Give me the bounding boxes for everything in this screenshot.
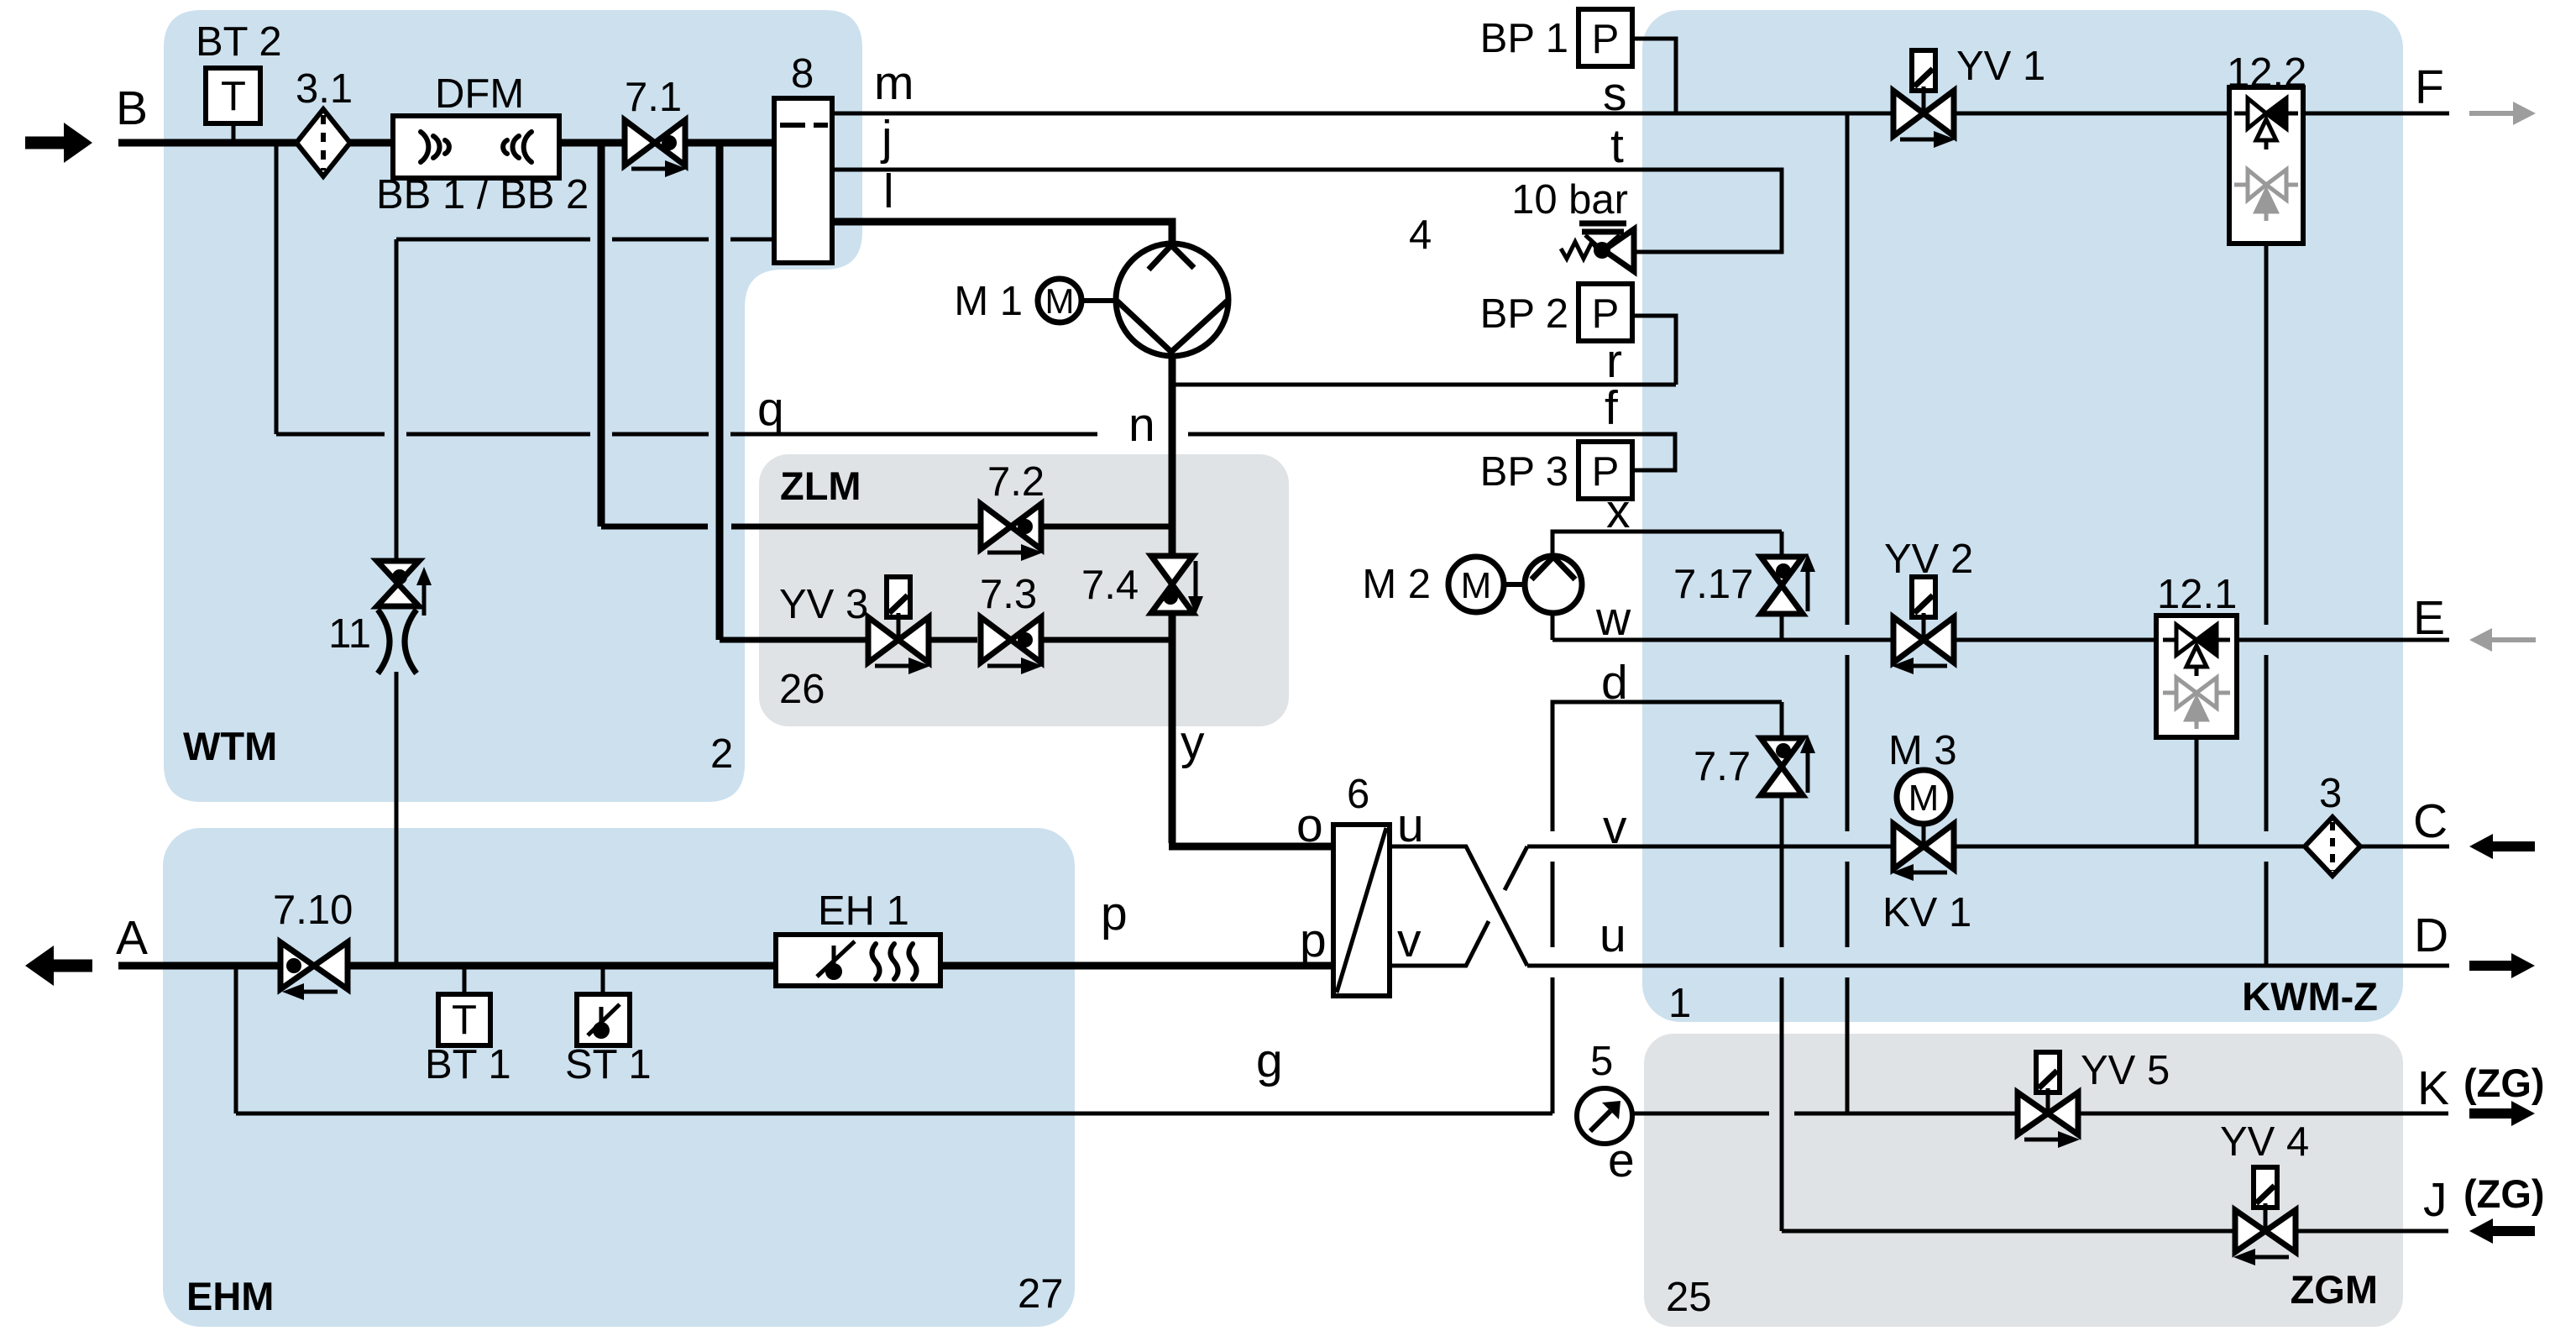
wire A line (thick)	[118, 962, 280, 970]
svg-text:26: 26	[779, 667, 825, 712]
svg-text:B: B	[116, 81, 148, 135]
svg-text:BT 1: BT 1	[425, 1042, 511, 1087]
svg-text:3.1: 3.1	[296, 66, 353, 112]
port K arrow	[2469, 1101, 2535, 1126]
svg-text:C: C	[2413, 794, 2448, 848]
svg-text:7.4: 7.4	[1081, 563, 1139, 608]
valve YV 1	[1893, 86, 1956, 148]
svg-text:v: v	[1397, 914, 1422, 967]
svg-text:T: T	[221, 74, 246, 119]
wire g line	[236, 1112, 1552, 1116]
flow indicator 5	[1577, 1088, 1632, 1144]
svg-text:(ZG): (ZG)	[2463, 1171, 2545, 1216]
svg-text:q: q	[757, 382, 784, 436]
valve 7.1	[625, 120, 687, 177]
svg-text:j: j	[880, 111, 893, 165]
svg-text:e: e	[1608, 1134, 1635, 1187]
valve YV 5	[2018, 1088, 2080, 1148]
svg-text:4: 4	[1409, 212, 1432, 258]
svg-text:M 1: M 1	[954, 279, 1023, 324]
wire pump M1 down (thick)	[1169, 356, 1176, 556]
wire 7.2 line (thick)	[601, 524, 708, 530]
motor M of M1	[1038, 279, 1116, 322]
wire 7.7 stem	[1780, 702, 1784, 738]
valve 7.10	[280, 942, 348, 1000]
wire 12.2 connector down	[2264, 244, 2269, 625]
valve 7.7	[1761, 735, 1815, 795]
svg-text:12.1: 12.1	[2157, 572, 2237, 617]
svg-text:P: P	[1592, 17, 1620, 62]
wire valve 11 down	[395, 672, 399, 966]
svg-text:BP 1: BP 1	[1480, 16, 1568, 61]
svg-text:D: D	[2414, 909, 2448, 962]
module region WTM (blue)	[164, 10, 862, 802]
svg-text:M: M	[1461, 565, 1492, 606]
wire B main line	[118, 139, 774, 147]
svg-text:25: 25	[1666, 1275, 1712, 1320]
wire junction drop x=716 (thick)	[598, 143, 605, 527]
svg-text:BB 1 / BB 2: BB 1 / BB 2	[376, 172, 589, 217]
relief valve 4 (10 bar)	[1561, 223, 1634, 271]
solenoid pilot of YV 3	[887, 577, 910, 617]
valve YV 2	[1892, 613, 1954, 674]
flow meter DFM (ultrasonic)	[393, 116, 559, 178]
module region ZLM (grey)	[759, 454, 1289, 726]
wire q line	[276, 432, 385, 437]
svg-text:EHM: EHM	[186, 1274, 274, 1318]
pump M2 (circle)	[1525, 556, 1582, 613]
svg-text:n: n	[1128, 398, 1155, 452]
wire J line	[1782, 1229, 2236, 1234]
solenoid pilot of YV 1	[1912, 50, 1935, 91]
double check valve 12.1	[2156, 616, 2237, 737]
svg-text:M: M	[1908, 778, 1940, 819]
wire hx v crossover	[1390, 921, 1489, 966]
wire w line	[1551, 612, 1555, 640]
svg-text:ZLM: ZLM	[780, 464, 861, 508]
pressure sensor BP 3	[1579, 442, 1632, 499]
wire ST1 stub	[601, 966, 605, 994]
svg-text:(ZG): (ZG)	[2463, 1061, 2545, 1105]
svg-text:3: 3	[2319, 771, 2342, 816]
svg-text:7.7: 7.7	[1694, 744, 1751, 789]
svg-text:7.10: 7.10	[273, 888, 353, 933]
svg-text:WTM: WTM	[183, 724, 277, 768]
svg-text:1: 1	[1668, 981, 1691, 1026]
svg-text:d: d	[1601, 656, 1628, 710]
wire vertical x=472 to valve 11	[395, 239, 399, 561]
wire m line	[832, 112, 1894, 116]
svg-text:m: m	[874, 56, 914, 110]
svg-text:o: o	[1296, 799, 1323, 852]
valve 7.4	[1151, 556, 1203, 615]
svg-text:EH 1: EH 1	[818, 888, 909, 934]
svg-text:P: P	[1592, 291, 1620, 337]
filter 3.1 (diamond)	[296, 109, 350, 176]
svg-text:10 bar: 10 bar	[1511, 177, 1628, 223]
valve 7.3	[981, 617, 1043, 674]
valve YV 3	[868, 613, 930, 674]
temperature sensor BT 2	[206, 68, 260, 123]
svg-text:g: g	[1256, 1034, 1283, 1087]
svg-text:y: y	[1181, 715, 1205, 769]
svg-text:K: K	[2417, 1061, 2449, 1115]
wire YV3 line (thick)	[720, 637, 868, 643]
svg-text:p: p	[1101, 887, 1128, 940]
port C arrow	[2469, 834, 2535, 859]
port J arrow	[2469, 1218, 2535, 1244]
motorised valve KV 1	[1892, 824, 1954, 881]
wire BT1 stub	[463, 966, 467, 994]
port D arrow	[2469, 953, 2535, 978]
svg-text:7.3: 7.3	[980, 572, 1037, 617]
wire y line (thick)	[1169, 613, 1176, 843]
svg-text:F: F	[2415, 60, 2444, 114]
valve 11 arrow	[416, 567, 432, 616]
port B inlet arrow	[25, 123, 92, 163]
svg-text:5: 5	[1590, 1039, 1613, 1084]
air separator 8	[774, 98, 832, 263]
svg-text:YV 4: YV 4	[2220, 1119, 2309, 1165]
heat exchanger 6	[1333, 825, 1390, 996]
svg-text:YV 5: YV 5	[2081, 1048, 2170, 1093]
svg-text:KWM-Z: KWM-Z	[2242, 974, 2378, 1019]
svg-text:T: T	[452, 998, 477, 1043]
svg-text:u: u	[1397, 799, 1424, 852]
wire f line	[1188, 434, 1675, 470]
motor M of M3 valve	[1897, 770, 1950, 824]
wire BT2 stub	[232, 121, 236, 141]
svg-text:E: E	[2413, 591, 2445, 645]
wire u-D line	[1527, 964, 2449, 968]
svg-text:t: t	[1610, 119, 1624, 173]
svg-text:YV 1: YV 1	[1956, 44, 2045, 89]
svg-text:BP 3: BP 3	[1480, 449, 1568, 495]
safety thermostat ST 1	[577, 994, 630, 1045]
valve 11	[377, 561, 419, 606]
wire level line y=285	[396, 238, 590, 242]
wire junction drop x=857 (thick)	[716, 143, 724, 640]
wire EHM bypass drop	[234, 966, 238, 1113]
module region EHM (blue)	[163, 828, 1075, 1327]
svg-text:BT 2: BT 2	[196, 19, 282, 65]
svg-text:BP 2: BP 2	[1480, 291, 1568, 337]
valve 7.17	[1761, 553, 1815, 614]
wire s drop x=2200	[1846, 113, 1850, 625]
svg-text:r: r	[1606, 334, 1622, 388]
wire BP1 connector	[1632, 39, 1676, 112]
solenoid pilot of YV 5	[2036, 1052, 2060, 1092]
svg-text:M: M	[1045, 281, 1075, 321]
module region KWM-Z (blue)	[1642, 10, 2403, 1022]
svg-text:7.1: 7.1	[625, 75, 682, 120]
double check valve 12.2	[2229, 87, 2303, 244]
heater EH 1	[776, 935, 940, 986]
svg-text:12.2: 12.2	[2227, 50, 2306, 96]
wire 12.1 connector down	[2195, 737, 2199, 846]
svg-text:7.17: 7.17	[1673, 562, 1753, 607]
svg-text:8: 8	[791, 51, 814, 97]
port F arrow (grey)	[2469, 102, 2536, 125]
svg-text:DFM: DFM	[435, 71, 524, 117]
svg-text:w: w	[1595, 592, 1631, 646]
svg-text:27: 27	[1018, 1271, 1064, 1317]
svg-text:f: f	[1605, 381, 1618, 435]
solenoid pilot of YV 4	[2254, 1167, 2277, 1208]
solenoid pilot of YV 2	[1912, 577, 1935, 617]
svg-text:YV 2: YV 2	[1884, 537, 1973, 582]
pump M1 (circle)	[1116, 244, 1228, 356]
wire r line	[1172, 383, 1676, 387]
wire x line	[1552, 532, 1782, 557]
pressure sensor BP 2	[1579, 284, 1632, 341]
motor M of M2	[1448, 557, 1525, 612]
wire l line (thick)	[832, 222, 1172, 245]
svg-text:YV 3: YV 3	[779, 582, 868, 627]
svg-text:M 3: M 3	[1888, 728, 1957, 773]
wire p line (thick)	[940, 962, 1333, 970]
wire d line	[1552, 702, 1782, 831]
port A outlet arrow	[25, 946, 92, 986]
svg-text:2: 2	[710, 731, 733, 777]
svg-text:A: A	[116, 911, 148, 965]
wire v-C line	[1527, 845, 1894, 849]
svg-text:x: x	[1606, 485, 1631, 538]
svg-text:J: J	[2423, 1173, 2448, 1227]
svg-text:6: 6	[1347, 772, 1369, 817]
svg-text:KV 1: KV 1	[1882, 890, 1971, 935]
port E arrow (grey)	[2469, 628, 2536, 652]
wire 7.17 stems	[1780, 532, 1784, 558]
module region ZGM (grey)	[1644, 1034, 2403, 1327]
svg-text:ZGM: ZGM	[2291, 1267, 2378, 1312]
svg-text:s: s	[1603, 67, 1627, 121]
svg-text:u: u	[1600, 909, 1626, 962]
svg-text:7.2: 7.2	[987, 459, 1045, 505]
wire j-t line	[832, 170, 1782, 252]
wire BP2 connector	[1634, 316, 1676, 385]
wire 7.7 down to J corner	[1780, 795, 1784, 846]
filter 3 (diamond)	[2305, 817, 2360, 876]
svg-text:M 2: M 2	[1362, 562, 1431, 607]
svg-text:l: l	[883, 165, 894, 218]
wire K line	[1632, 1112, 1769, 1116]
valve YV 4	[2233, 1203, 2296, 1265]
wire hx u crossover	[1390, 846, 1527, 966]
venturi restriction below valve 11	[378, 610, 416, 673]
valve 7.2	[981, 504, 1043, 561]
wire junction drop x=329 to q	[275, 143, 279, 434]
pressure sensor BP 1	[1579, 9, 1632, 66]
svg-text:p: p	[1300, 914, 1327, 967]
temperature sensor BT 1	[438, 994, 490, 1045]
svg-text:ST 1: ST 1	[565, 1042, 652, 1087]
svg-text:11: 11	[328, 611, 371, 657]
